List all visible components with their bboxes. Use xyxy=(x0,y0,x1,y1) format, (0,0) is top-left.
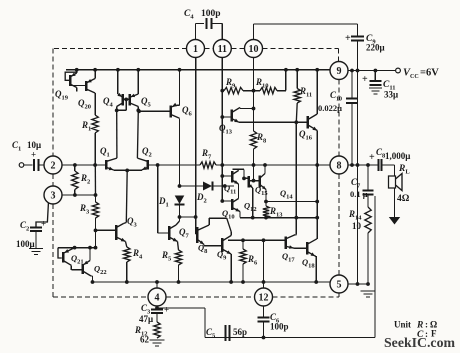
svg-text:=6V: =6V xyxy=(420,68,439,79)
svg-text:100μ: 100μ xyxy=(16,239,35,249)
svg-text:1,000μ: 1,000μ xyxy=(385,151,410,161)
svg-text:10μ: 10μ xyxy=(27,140,41,150)
svg-text:Unit: Unit xyxy=(394,320,411,330)
svg-text:62: 62 xyxy=(140,335,150,345)
svg-text:11: 11 xyxy=(218,44,227,55)
svg-text:4Ω: 4Ω xyxy=(397,194,410,204)
svg-text:+: + xyxy=(369,152,375,163)
svg-text:0.022μ: 0.022μ xyxy=(318,103,342,113)
svg-text:56p: 56p xyxy=(233,327,247,337)
svg-text:4: 4 xyxy=(155,293,160,304)
svg-text:5: 5 xyxy=(337,280,342,291)
svg-text:1: 1 xyxy=(193,44,198,55)
svg-text:R: R xyxy=(416,321,423,331)
svg-text:220μ: 220μ xyxy=(366,43,385,53)
svg-text:12: 12 xyxy=(259,293,269,304)
svg-text:8: 8 xyxy=(337,161,342,172)
svg-text:100p: 100p xyxy=(201,9,221,19)
svg-text:47μ: 47μ xyxy=(139,314,153,324)
svg-text::: : xyxy=(425,320,428,330)
svg-text:33μ: 33μ xyxy=(384,90,398,100)
svg-text:+: + xyxy=(362,74,368,85)
svg-text:0.1 μ: 0.1 μ xyxy=(350,189,368,199)
svg-text:+: + xyxy=(41,219,46,229)
svg-text:2: 2 xyxy=(51,161,56,172)
svg-text:3: 3 xyxy=(51,191,56,202)
svg-text:10: 10 xyxy=(249,44,259,55)
svg-text:+: + xyxy=(31,150,36,160)
svg-text:+: + xyxy=(345,33,351,44)
svg-text:SeekIC.com: SeekIC.com xyxy=(384,335,455,350)
svg-text:10: 10 xyxy=(352,221,362,231)
svg-text:100p: 100p xyxy=(270,322,289,332)
svg-text:9: 9 xyxy=(337,66,342,77)
svg-text:+: + xyxy=(164,305,169,315)
